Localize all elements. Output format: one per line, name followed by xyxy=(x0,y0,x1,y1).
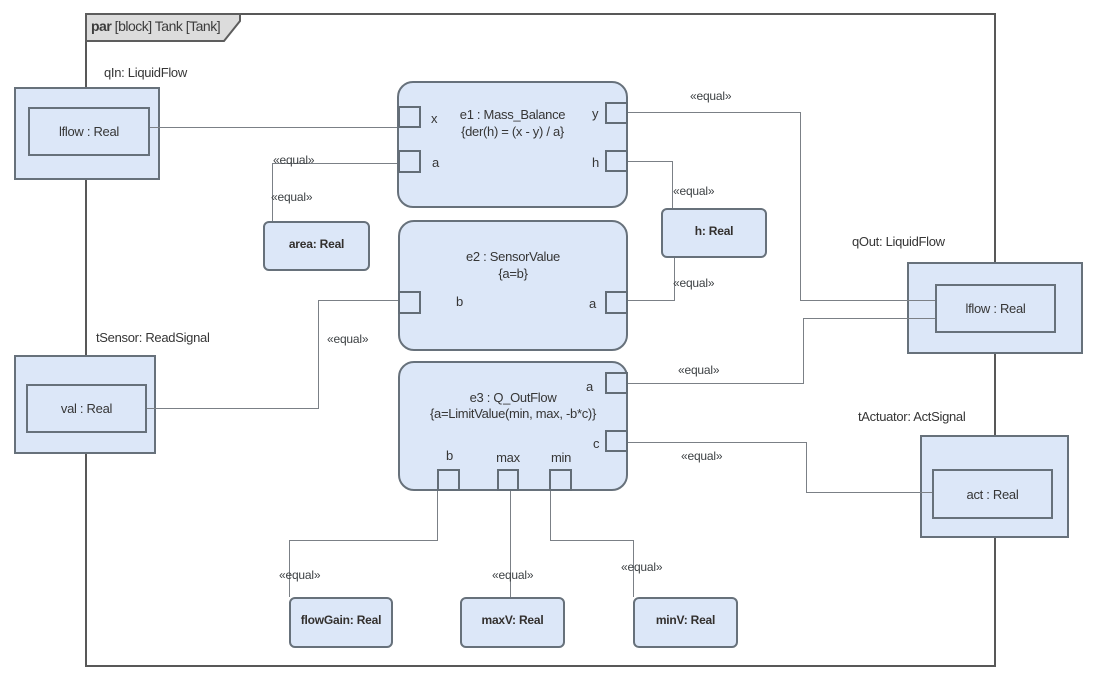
text e1 constraint xyxy=(397,124,628,139)
port e2.b xyxy=(398,291,421,314)
port e1.x xyxy=(398,106,421,128)
text act : Real xyxy=(932,487,1053,502)
equal label 4 (h-hbox) xyxy=(673,184,714,198)
port label a (e1) xyxy=(432,155,439,170)
wire e3.min to minV xyxy=(550,491,551,540)
text val : Real xyxy=(26,401,147,416)
port label x xyxy=(431,111,437,126)
wire e1.h to h:Real xyxy=(628,161,672,162)
block tSensor: ReadSignal (outer) xyxy=(14,355,156,454)
block tActuator: ActSignal (outer) xyxy=(920,435,1069,538)
text h: Real xyxy=(661,224,767,238)
text e1 title xyxy=(397,107,628,122)
frame border top xyxy=(85,13,996,15)
equal label 3 (y-lflow) xyxy=(690,89,731,103)
wire e3.c to act(tActuator) xyxy=(628,442,806,443)
text maxV: Real xyxy=(460,613,565,627)
text e3 title xyxy=(398,390,628,405)
value box area: Real xyxy=(263,221,370,271)
constraint block e2 SensorValue xyxy=(398,220,628,351)
block qIn: LiquidFlow (outer) xyxy=(14,87,160,180)
wire h:Real to e2.a xyxy=(674,258,675,301)
wire e3.b to flowGain xyxy=(437,491,438,540)
port e2.a xyxy=(605,291,628,314)
wire val(tSensor) to e2.b xyxy=(147,408,318,409)
equal label 8 (e3c-act) xyxy=(681,449,722,463)
label qIn: LiquidFlow xyxy=(104,65,187,80)
text lflow : Real (qOut) xyxy=(935,301,1056,316)
port label a (e2) xyxy=(589,296,596,311)
inner part val : Real xyxy=(26,384,147,433)
text e2 title xyxy=(398,249,628,264)
wire lflow(qIn) to e1.x xyxy=(150,127,398,128)
frame border right xyxy=(994,13,996,667)
label qOut: LiquidFlow xyxy=(852,234,945,249)
port label max xyxy=(486,450,530,465)
port e3.max xyxy=(497,469,519,491)
port label b (e2) xyxy=(456,294,463,309)
port e1.h xyxy=(605,150,628,172)
inner part lflow : Real (qOut) xyxy=(935,284,1056,333)
port label y xyxy=(592,106,598,121)
value box maxV: Real xyxy=(460,597,565,648)
equal label 2 (a-area) xyxy=(271,190,312,204)
wire e3.max to maxV xyxy=(510,491,511,597)
equal label 5 (hbox-e2a) xyxy=(673,276,714,290)
value box h: Real xyxy=(661,208,767,258)
frame border bottom xyxy=(85,665,996,667)
port e3.min xyxy=(549,469,572,491)
port e3.c xyxy=(605,430,628,452)
tab text xyxy=(91,19,220,34)
block qOut: LiquidFlow (outer) xyxy=(907,262,1083,354)
text flowGain: Real xyxy=(289,613,393,627)
frame tab par [block] Tank [Tank] xyxy=(85,13,243,43)
inner part act : Real xyxy=(932,469,1053,519)
port label h xyxy=(592,155,599,170)
equal label 11 (min-minV) xyxy=(621,560,662,574)
constraint block e3 Q_OutFlow xyxy=(398,361,628,491)
frame border left xyxy=(85,13,87,667)
equal label 7 (e3a-lflow) xyxy=(678,363,719,377)
text e3 constraint xyxy=(398,406,628,421)
inner part lflow : Real (qIn) xyxy=(28,107,150,156)
value box minV: Real xyxy=(633,597,738,648)
label tActuator: ActSignal xyxy=(858,409,965,424)
constraint block e1 Mass_Balance xyxy=(397,81,628,208)
port label a (e3) xyxy=(586,379,593,394)
equal label 9 (b-flowGain) xyxy=(279,568,320,582)
wire e3.a to lflow(qOut) xyxy=(628,383,803,384)
label tSensor: ReadSignal xyxy=(96,330,210,345)
text e2 constraint xyxy=(398,266,628,281)
value box flowGain: Real xyxy=(289,597,393,648)
port e3.a xyxy=(605,372,628,394)
wire e1.y to lflow(qOut) xyxy=(628,112,800,113)
port e1.a xyxy=(398,150,421,173)
port e3.b xyxy=(437,469,460,491)
wire e1.a to area xyxy=(272,163,398,164)
text lflow : Real (qIn) xyxy=(28,124,150,139)
equal label 6 (val-e2b) xyxy=(327,332,368,346)
port e1.y xyxy=(605,102,628,124)
equal label 10 (max-maxV) xyxy=(492,568,533,582)
text area: Real xyxy=(263,237,370,251)
port label c (e3) xyxy=(593,436,599,451)
port label b (e3) xyxy=(446,448,453,463)
port label min xyxy=(539,450,583,465)
equal label 1 (lflow-x) xyxy=(273,153,314,167)
text minV: Real xyxy=(633,613,738,627)
